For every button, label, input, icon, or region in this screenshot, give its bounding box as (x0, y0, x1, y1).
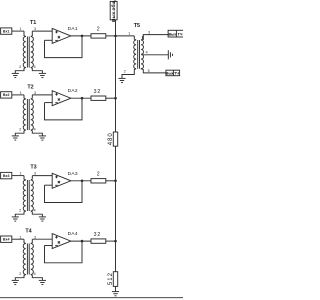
op-amp DA3 triangle (52, 173, 71, 188)
node input 1 connector box Вх1 (1, 28, 12, 34)
wire DA1 output to resistor (71, 35, 91, 37)
wire DA4 output to resistor (71, 240, 91, 242)
svg-text:DA2: DA2 (68, 88, 78, 94)
transformer T1 core (26, 37, 28, 68)
junction DA3 output / feedback (81, 180, 84, 183)
transformer T5 primary winding (134, 40, 136, 69)
T5 pin 2 lead to ground (122, 69, 136, 79)
DA4 plus input mark (55, 236, 58, 238)
ground at T5 pin 2 (118, 77, 125, 79)
wire input box to T2 pin 1 (12, 94, 24, 96)
transformer T2 primary winding (23, 99, 26, 130)
T2 pin 4 lead to ground (31, 130, 43, 136)
T4 pin 1 lead (24, 239, 26, 243)
svg-text:Вых: Вых (168, 33, 176, 37)
resistor R5 (480) body (113, 132, 117, 146)
svg-text:1: 1 (20, 27, 22, 31)
wire DA3 output to resistor (71, 180, 91, 182)
svg-text:DA4: DA4 (68, 231, 78, 237)
junction resistor to bus (114, 35, 117, 38)
wire DA3 inverting input (45, 184, 53, 186)
ground at bottom of bus (112, 291, 119, 293)
svg-text:Вых.общ.: Вых.общ. (110, 0, 117, 22)
svg-text:T5: T5 (134, 23, 140, 29)
svg-text:512: 512 (108, 272, 114, 285)
transformer T3 secondary winding (31, 180, 34, 211)
svg-text:480: 480 (108, 132, 114, 145)
junction resistor to bus (114, 180, 117, 183)
DA3 gain mark (58, 181, 60, 183)
T3 pin 4 lead to ground (31, 211, 43, 217)
resistor R1 (2) body (91, 34, 106, 38)
svg-text:T3: T3 (30, 164, 36, 170)
DA2 plus input mark (55, 93, 58, 95)
svg-text:DA3: DA3 (68, 171, 78, 177)
svg-text:Вх2: Вх2 (3, 93, 10, 97)
svg-text:3: 3 (34, 235, 36, 239)
feedback wire DA2 output to inverting input (45, 98, 83, 120)
node common output connector box (vertical) (110, 1, 117, 19)
feedback wire DA3 output to inverting input (45, 181, 83, 203)
svg-text:32: 32 (94, 89, 102, 95)
ground at T4 pin 2 (12, 279, 19, 281)
wire input box to T4 pin 1 (12, 238, 24, 240)
DA1 minus input mark (55, 39, 58, 41)
junction DA1 output / feedback (81, 35, 84, 38)
svg-text:3: 3 (34, 27, 36, 31)
svg-text:3: 3 (34, 172, 36, 176)
transformer T3 core (26, 180, 28, 211)
DA2 minus input mark (55, 102, 58, 104)
svg-text:4: 4 (34, 208, 36, 212)
junction DA2 output / feedback (81, 97, 84, 100)
op-amp DA4 triangle (52, 234, 71, 249)
wire input box to T1 pin 1 (12, 30, 24, 32)
T5 pin 5 lead to output box (141, 69, 166, 73)
chassis ground at T5 center tap (167, 50, 169, 59)
T3 pin 2 lead to ground (15, 211, 25, 217)
common bus vertical wire (115, 20, 117, 292)
svg-text:DA1: DA1 (68, 26, 78, 32)
svg-text:1: 1 (20, 91, 22, 95)
node input 2 connector box Вх2 (1, 92, 12, 98)
transformer T4 secondary winding (31, 244, 34, 275)
T1 pin 4 lead to ground (31, 68, 43, 74)
transformer T4 core (26, 244, 28, 275)
T3 pin 3 lead (31, 176, 33, 180)
svg-text:T4: T4 (25, 228, 31, 234)
T1 pin 2 lead to ground (15, 68, 25, 74)
ground at T3 pin 2 (12, 216, 19, 218)
T5 pin 3 lead (141, 36, 143, 40)
DA1 gain mark (58, 36, 60, 38)
wire DA2 inverting input (45, 102, 53, 104)
T3 pin 1 lead (24, 176, 26, 180)
node input 3 connector box Вх3 (1, 172, 12, 178)
op-amp DA2 triangle (52, 91, 71, 106)
wire resistor to common bus (106, 180, 116, 182)
node output box Вых ТЧ (top) (168, 30, 183, 37)
resistor R2 (32) body (91, 96, 106, 100)
T5 pin 1 lead (134, 36, 136, 40)
svg-text:ТЧ: ТЧ (174, 72, 179, 76)
svg-text:4: 4 (146, 51, 148, 55)
svg-text:T2: T2 (27, 84, 33, 90)
svg-text:Вх4: Вх4 (3, 238, 10, 242)
wire resistor to common bus (106, 35, 116, 37)
DA3 minus input mark (55, 184, 58, 186)
resistor R3 (2) body (91, 179, 106, 183)
DA3 plus input mark (55, 176, 58, 178)
T2 pin 1 lead (24, 95, 26, 99)
wire resistor to common bus (106, 97, 116, 99)
feedback wire DA4 output to inverting input (45, 241, 83, 263)
svg-text:1: 1 (20, 172, 22, 176)
T5 secondary center tap wire (142, 54, 169, 56)
svg-text:2: 2 (19, 127, 21, 131)
wire resistor to common bus (106, 240, 116, 242)
transformer T2 core (26, 99, 28, 130)
svg-text:32: 32 (94, 232, 102, 238)
transformer T4 primary winding (23, 244, 26, 275)
transformer T1 primary winding (23, 37, 26, 68)
junction resistor to bus (114, 97, 117, 100)
wire T4 secondary to DA4 noninverting input (32, 238, 52, 240)
ground at T2 pin 2 (12, 135, 19, 137)
wire bus to T5 pin 1 (116, 35, 135, 37)
svg-text:2: 2 (19, 65, 21, 69)
svg-text:4: 4 (34, 272, 36, 276)
svg-text:2: 2 (124, 70, 126, 74)
transformer T1 secondary winding (31, 37, 34, 68)
svg-text:2: 2 (19, 272, 21, 276)
svg-text:Вх3: Вх3 (3, 174, 10, 178)
DA4 gain mark (58, 241, 60, 243)
wire T3 secondary to DA3 noninverting input (32, 175, 52, 177)
svg-text:3: 3 (34, 91, 36, 95)
node input 4 connector box Вх4 (1, 236, 12, 242)
T2 pin 2 lead to ground (15, 130, 25, 136)
wire DA1 inverting input (45, 39, 53, 41)
op-amp DA1 triangle (52, 28, 71, 43)
ground at T2 pin 4 (39, 135, 46, 137)
svg-text:Вх1: Вх1 (3, 29, 10, 33)
junction resistor to bus (114, 240, 117, 243)
ground at T4 pin 4 (39, 279, 46, 281)
T4 pin 2 lead to ground (15, 275, 25, 281)
wire T2 secondary to DA2 noninverting input (32, 94, 52, 96)
node output box Вых ТЧ (bottom) (166, 70, 180, 76)
ground at T1 pin 2 (12, 72, 19, 74)
svg-text:2: 2 (97, 172, 101, 178)
svg-text:2: 2 (19, 208, 21, 212)
svg-text:3: 3 (148, 31, 150, 35)
transformer T5 secondary winding (141, 40, 143, 69)
svg-text:T1: T1 (30, 20, 36, 26)
wire input box to T3 pin 1 (12, 175, 24, 177)
wire T5 pin 3 to output box (143, 35, 168, 40)
ground at T1 pin 4 (39, 72, 46, 74)
resistor R4 (32) body (91, 239, 106, 243)
T4 pin 3 lead (31, 239, 33, 243)
wire DA2 output to resistor (71, 97, 91, 99)
resistor R6 (512) body (113, 272, 117, 287)
feedback wire DA1 output to inverting input (45, 36, 83, 58)
junction DA4 output / feedback (81, 240, 84, 243)
T4 pin 4 lead to ground (31, 275, 43, 281)
transformer T3 primary winding (23, 180, 26, 211)
T1 pin 1 lead (24, 31, 26, 36)
svg-text:1: 1 (20, 235, 22, 239)
DA4 minus input mark (55, 245, 58, 247)
bottom border line (0, 297, 183, 299)
svg-text:4: 4 (34, 127, 36, 131)
svg-text:ТЧ: ТЧ (178, 33, 183, 37)
svg-text:4: 4 (34, 65, 36, 69)
DA2 gain mark (58, 98, 60, 100)
DA1 plus input mark (55, 31, 58, 33)
svg-text:2: 2 (97, 27, 101, 33)
svg-text:5: 5 (148, 69, 150, 73)
transformer T2 secondary winding (31, 99, 34, 130)
transformer T5 core (137, 40, 139, 69)
svg-text:1: 1 (128, 31, 130, 35)
ground at T3 pin 4 (39, 216, 46, 218)
wire T1 secondary to DA1 noninverting input (32, 30, 52, 32)
svg-text:Вых: Вых (166, 72, 174, 76)
T2 pin 3 lead (31, 95, 33, 99)
wire DA4 inverting input (45, 245, 53, 247)
T1 pin 3 lead (31, 31, 33, 36)
